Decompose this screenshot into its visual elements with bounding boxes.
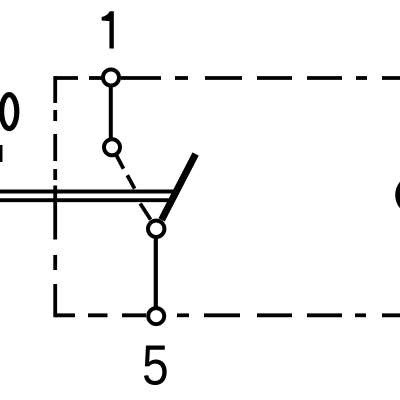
clipped glyph sliver below position 0 — [0, 145, 3, 162]
clipped circle symbol at right edge — [398, 177, 400, 213]
enclosure top border (dash-dot), y=78 — [55, 76, 400, 80]
rocker bridge double line (upper) — [0, 190, 174, 194]
dashed alternate-throw line segment b — [127, 175, 134, 188]
dashed alternate-throw line segment c — [140, 204, 150, 220]
enclosure left border (dash-dot), x=55 — [53, 76, 57, 317]
label position 0 (clipped at left edge) — [2, 95, 17, 129]
rocker bridge double line (lower) — [0, 198, 171, 202]
pivot contact circle — [148, 221, 164, 237]
enclosure bottom border (dash-dot), y=315.3 — [55, 313, 400, 317]
switch lever — [162, 154, 196, 220]
moving contact circle — [104, 139, 120, 155]
dashed alternate-throw line segment a — [117, 156, 124, 169]
svg-text:5: 5 — [142, 335, 169, 397]
terminal 5 circle — [148, 308, 164, 324]
wire pivot to terminal 5 — [154, 234, 158, 310]
label terminal 1 — [102, 11, 114, 48]
wire terminal1 to moving contact — [109, 82, 113, 142]
terminal 1 circle — [103, 70, 119, 86]
